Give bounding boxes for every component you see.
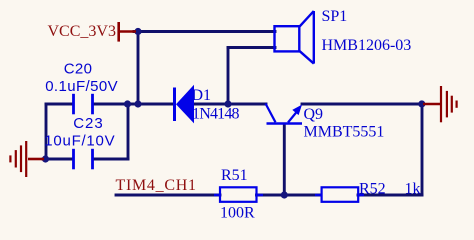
svg-text:10uF/10V: 10uF/10V bbox=[44, 133, 115, 150]
svg-text:SP1: SP1 bbox=[322, 8, 348, 25]
svg-text:TIM4_CH1: TIM4_CH1 bbox=[116, 177, 197, 194]
svg-text:MMBT5551: MMBT5551 bbox=[304, 124, 385, 141]
svg-text:1N4148: 1N4148 bbox=[192, 106, 240, 123]
svg-text:D1: D1 bbox=[192, 87, 212, 104]
svg-text:VCC_3V3: VCC_3V3 bbox=[48, 23, 116, 40]
svg-text:0.1uF/50V: 0.1uF/50V bbox=[45, 78, 118, 95]
svg-text:1k: 1k bbox=[405, 181, 421, 198]
svg-text:R52: R52 bbox=[359, 181, 386, 198]
svg-text:100R: 100R bbox=[220, 205, 255, 222]
svg-text:R51: R51 bbox=[221, 167, 248, 184]
svg-text:Q9: Q9 bbox=[304, 106, 324, 123]
svg-text:HMB1206-03: HMB1206-03 bbox=[322, 37, 412, 54]
svg-text:C23: C23 bbox=[73, 115, 104, 132]
svg-text:C20: C20 bbox=[64, 61, 93, 78]
